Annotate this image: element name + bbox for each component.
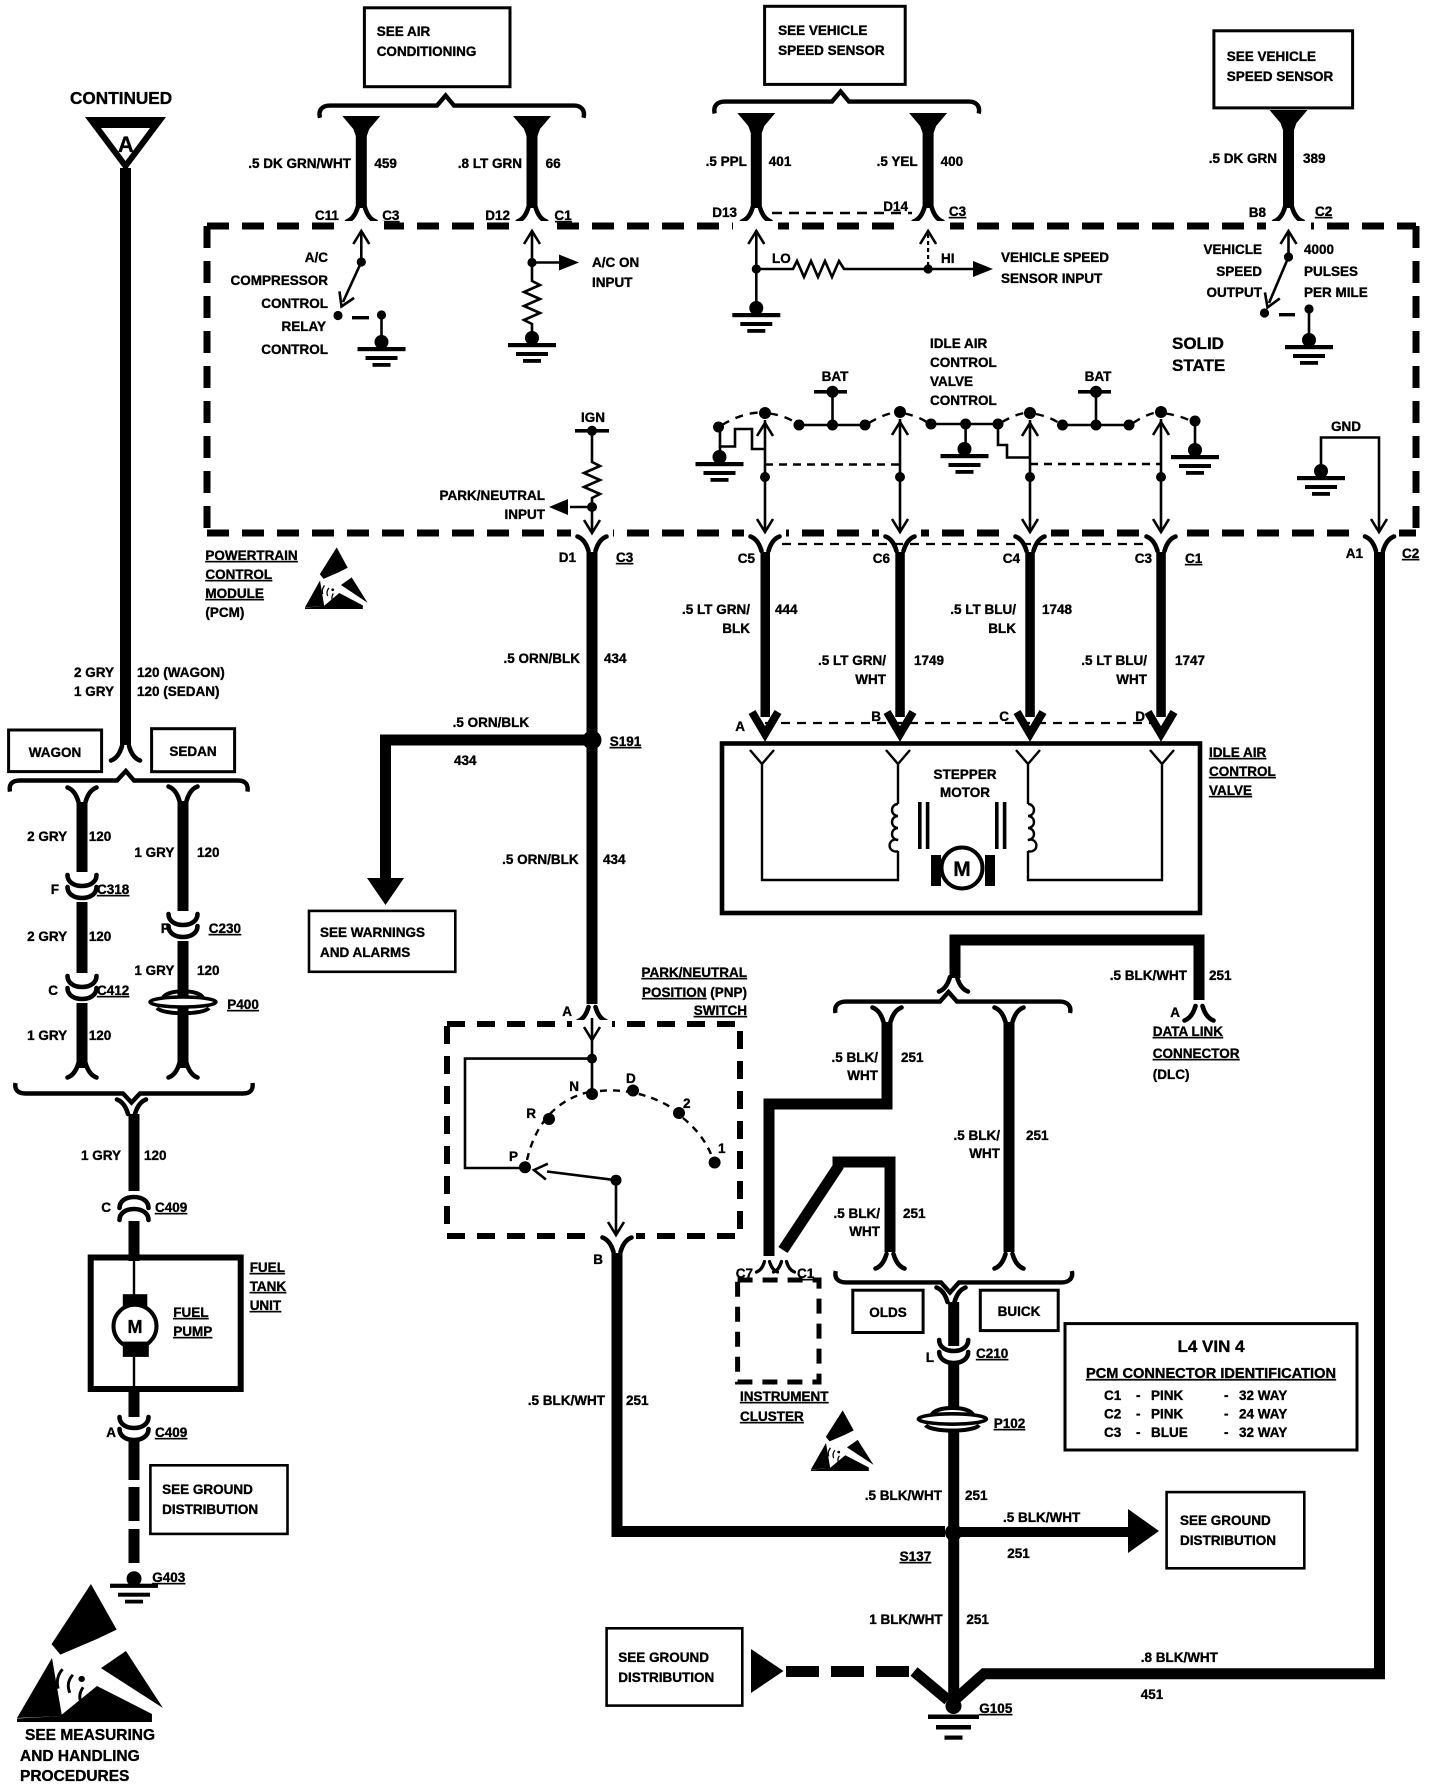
- svg-text:VEHICLE SPEED: VEHICLE SPEED: [1001, 250, 1109, 265]
- left coil: [890, 772, 898, 852]
- svg-text:BLK: BLK: [722, 621, 750, 636]
- driver column C6 vertical with arrows: [892, 419, 908, 532]
- ESD symbol near PCM label: [305, 547, 368, 609]
- label .5 LT GRN/WHT 1749: [818, 653, 944, 687]
- svg-text:444: 444: [775, 602, 798, 617]
- svg-text:IDLE AIR: IDLE AIR: [930, 336, 988, 351]
- label .5 BLK/WHT 251 left branch: [831, 1050, 924, 1083]
- svg-text:IDLE AIR: IDLE AIR: [1209, 745, 1267, 760]
- driver column C3 vertical with arrows: [1153, 419, 1169, 532]
- svg-text:1 GRY: 1 GRY: [74, 684, 114, 699]
- dashed arc right of C3: [1166, 414, 1191, 422]
- svg-text:A: A: [562, 1004, 572, 1019]
- svg-text:.5 DK GRN/WHT: .5 DK GRN/WHT: [248, 156, 352, 171]
- svg-text:WHT: WHT: [1116, 672, 1147, 687]
- svg-text:120: 120: [89, 929, 112, 944]
- svg-text:CONTROL: CONTROL: [261, 296, 328, 311]
- ground stem below left dot: [696, 446, 744, 482]
- svg-text:A: A: [118, 132, 134, 157]
- wire from brace to C210: [948, 1302, 959, 1346]
- dashed arc right of C4: [1036, 414, 1059, 423]
- svg-text:SEDAN: SEDAN: [169, 744, 216, 759]
- BAT tap left: [814, 386, 847, 425]
- drop connector wire 389: [1270, 110, 1308, 208]
- dashed arc right of C5: [770, 414, 796, 424]
- connector at OLDS brace end: [876, 1254, 905, 1269]
- node on relay driver: [357, 257, 366, 266]
- box BUICK: [980, 1290, 1058, 1330]
- svg-text:TANK: TANK: [250, 1279, 287, 1294]
- wire from brace hook up and over to DLC: [955, 940, 1199, 1000]
- svg-text:.5 BLK/: .5 BLK/: [833, 1206, 880, 1221]
- right branch connector under brace: [995, 1008, 1024, 1023]
- svg-text:.8 BLK/WHT: .8 BLK/WHT: [1141, 1650, 1219, 1665]
- svg-text:A/C ON: A/C ON: [592, 255, 639, 270]
- staircase from node to C4 column: [998, 424, 1030, 458]
- svg-text:.5 ORN/BLK: .5 ORN/BLK: [502, 852, 579, 867]
- thick arrow into valve pin A: [752, 712, 778, 734]
- svg-text:S191: S191: [610, 734, 642, 749]
- label VEHICLE SPEED OUTPUT: [1203, 242, 1262, 300]
- gap in dashed border at A entry and B exit: [572, 1020, 636, 1240]
- svg-text:SPEED: SPEED: [1216, 264, 1262, 279]
- inner dashed line segment C4-C3: [1030, 463, 1161, 465]
- dashed valve connector face line: [765, 722, 1161, 724]
- staircase from left dot to C5 column: [720, 427, 765, 449]
- svg-text:A/C: A/C: [305, 250, 329, 265]
- svg-text:MODULE: MODULE: [205, 586, 264, 601]
- line from junction to N contact: [591, 1059, 594, 1094]
- box WAGON: [9, 730, 102, 772]
- vso switch arm: [1269, 257, 1289, 303]
- svg-text:CONNECTOR: CONNECTOR: [1153, 1046, 1240, 1061]
- connector C3 C1 at PCM bottom: [1135, 537, 1203, 567]
- svg-text:C3: C3: [616, 550, 634, 565]
- arrow to SEE GROUND DISTRIBUTION (right): [1128, 1509, 1159, 1553]
- svg-text:VALVE: VALVE: [930, 374, 973, 389]
- motor brushes: [931, 855, 995, 886]
- svg-text:D14: D14: [883, 199, 908, 214]
- label 1 BLK/WHT 251: [869, 1612, 989, 1627]
- svg-text:MOTOR: MOTOR: [940, 785, 990, 800]
- svg-text:120 (SEDAN): 120 (SEDAN): [137, 684, 220, 699]
- svg-text:32 WAY: 32 WAY: [1239, 1388, 1287, 1403]
- connector C4 at PCM bottom: [1003, 537, 1045, 567]
- svg-text:C318: C318: [97, 882, 130, 897]
- wire sedan branch 1 GRY 120: [178, 801, 189, 1068]
- svg-text:32 WAY: 32 WAY: [1239, 1425, 1287, 1440]
- svg-text:UNIT: UNIT: [250, 1298, 282, 1313]
- label .5 BLK/WHT 251 right branch: [953, 1128, 1049, 1161]
- svg-text:B: B: [593, 1252, 603, 1267]
- box SEE GROUND DISTRIBUTION (bottom left): [607, 1628, 743, 1705]
- label FUEL PUMP: [173, 1305, 212, 1339]
- wire S137 down to G105: [948, 1532, 959, 1702]
- svg-text:1 BLK/WHT: 1 BLK/WHT: [869, 1612, 943, 1627]
- svg-text:WHT: WHT: [847, 1068, 878, 1083]
- svg-text:M: M: [128, 1317, 143, 1337]
- dashed arc peak dot C4: [1024, 407, 1036, 419]
- label .5 BLK/WHT 251 (DLC): [1110, 968, 1232, 983]
- svg-text:INSTRUMENT: INSTRUMENT: [740, 1389, 829, 1404]
- connector B8 C2 at PCM: [1249, 204, 1333, 222]
- dashed arc left of C3: [1133, 413, 1156, 424]
- svg-text:251: 251: [901, 1050, 924, 1065]
- svg-text:.5 BLK/WHT: .5 BLK/WHT: [528, 1393, 606, 1408]
- svg-text:GND: GND: [1331, 419, 1361, 434]
- svg-text:.5 BLK/WHT: .5 BLK/WHT: [1110, 968, 1188, 983]
- svg-text:DISTRIBUTION: DISTRIBUTION: [162, 1502, 258, 1517]
- svg-text:-: -: [1136, 1407, 1141, 1422]
- svg-text:-: -: [1224, 1388, 1229, 1403]
- svg-text:OUTPUT: OUTPUT: [1207, 285, 1263, 300]
- wire wagon branch 2 GRY 120: [77, 802, 88, 1068]
- vso: arrow up into B8: [1287, 232, 1290, 257]
- connector C5 at PCM bottom: [738, 537, 780, 567]
- wiper arm with arrow to P: [533, 1162, 616, 1180]
- svg-text:PCM CONNECTOR IDENTIFICATION: PCM CONNECTOR IDENTIFICATION: [1086, 1366, 1336, 1382]
- INSTRUMENT CLUSTER dashed box: [738, 1280, 819, 1382]
- ground G105: [928, 1698, 1013, 1740]
- arrow right to VEHICLE SPEED SENSOR INPUT: [928, 261, 993, 277]
- wire from triangle A down to wagon/sedan brace: [120, 168, 131, 745]
- svg-text:A1: A1: [1346, 546, 1364, 561]
- rectangle loop to P contact: [465, 1059, 592, 1168]
- node dots between C6 and C4 with ground: [926, 419, 1004, 430]
- svg-text:SEE AIR: SEE AIR: [377, 24, 431, 39]
- svg-text:24 WAY: 24 WAY: [1239, 1407, 1287, 1422]
- left branch connector under brace: [873, 1008, 902, 1023]
- svg-text:C: C: [999, 709, 1009, 724]
- relay driver: arrow up into C11: [360, 232, 363, 262]
- svg-text:PULSES: PULSES: [1304, 264, 1358, 279]
- wire C5 to valve pin A: [761, 552, 771, 717]
- splice S137 horizontal wire right to ground distribution arrow: [953, 1527, 1129, 1537]
- svg-text:1 GRY: 1 GRY: [134, 963, 174, 978]
- connector C6 at PCM bottom: [873, 537, 915, 567]
- svg-text:120: 120: [197, 963, 220, 978]
- dashed arc peak dot C5: [759, 407, 771, 419]
- fuel pump motor: [114, 1294, 157, 1389]
- motor M circle: [942, 848, 983, 889]
- svg-text:-: -: [1136, 1425, 1141, 1440]
- svg-text:.5 ORN/BLK: .5 ORN/BLK: [453, 715, 530, 730]
- svg-text:.5 ORN/BLK: .5 ORN/BLK: [503, 651, 580, 666]
- node at D12 input: [527, 258, 536, 267]
- svg-text:POWERTRAIN: POWERTRAIN: [205, 548, 297, 563]
- splice S191 node: [583, 731, 642, 750]
- svg-text:120: 120: [197, 845, 220, 860]
- wire P102 to S137: [948, 1431, 959, 1527]
- ground below LO node: [732, 269, 780, 333]
- svg-text:CONTROL: CONTROL: [205, 567, 272, 582]
- brace joining wagon and sedan branches: [15, 1083, 252, 1103]
- arrow down from gnd bracket into A1: [1371, 519, 1387, 532]
- label INSTRUMENT CLUSTER: [740, 1389, 829, 1424]
- contact dash: [1279, 313, 1295, 316]
- label VEHICLE SPEED SENSOR INPUT: [1001, 250, 1109, 286]
- svg-text:120 (WAGON): 120 (WAGON): [137, 665, 225, 680]
- svg-text:PINK: PINK: [1151, 1407, 1184, 1422]
- arrow from ground distribution box: [751, 1649, 784, 1693]
- svg-text:SENSOR INPUT: SENSOR INPUT: [1001, 271, 1103, 286]
- svg-text:D: D: [626, 1071, 636, 1086]
- hook connector above brace: [939, 977, 968, 992]
- box OLDS: [853, 1290, 923, 1332]
- wire C3 to valve pin D: [1156, 552, 1166, 717]
- relay switch arm: [343, 262, 361, 302]
- svg-text:SEE MEASURING: SEE MEASURING: [25, 1727, 155, 1744]
- A/C on input: arrow up into D12: [531, 232, 534, 263]
- svg-text:PARK/NEUTRAL: PARK/NEUTRAL: [642, 965, 748, 980]
- svg-text:251: 251: [903, 1206, 926, 1221]
- svg-text:AND HANDLING: AND HANDLING: [20, 1748, 140, 1765]
- svg-text:BLK: BLK: [988, 621, 1016, 636]
- svg-text:PER MILE: PER MILE: [1304, 285, 1368, 300]
- svg-text:434: 434: [454, 753, 477, 768]
- wire C409 to fuel tank unit: [129, 1221, 140, 1261]
- svg-text:CONTINUED: CONTINUED: [70, 88, 172, 108]
- svg-text:1 GRY: 1 GRY: [81, 1148, 121, 1163]
- svg-text:PARK/NEUTRAL: PARK/NEUTRAL: [440, 488, 546, 503]
- svg-text:A: A: [735, 719, 745, 734]
- brace under DLC feed: [835, 992, 1070, 1013]
- label SOLID STATE: [1172, 334, 1225, 375]
- vss input: arrow up into D13: [755, 232, 758, 269]
- IDLE AIR CONTROL VALVE box: [722, 744, 1200, 914]
- svg-text:G403: G403: [152, 1570, 186, 1585]
- right coil: [1028, 772, 1036, 851]
- driver node row: step dot far left: [713, 422, 724, 433]
- left core bars: [918, 802, 929, 849]
- connector A above PNP switch: [562, 1004, 606, 1022]
- svg-text:G105: G105: [979, 1701, 1013, 1716]
- grommet P400: [150, 991, 259, 1013]
- wire C6 to valve pin B: [895, 552, 905, 717]
- svg-text:B: B: [871, 709, 881, 724]
- svg-text:SWITCH: SWITCH: [694, 1003, 747, 1018]
- svg-text:CONTROL: CONTROL: [930, 355, 997, 370]
- connector D1 C3 at PCM bottom: [559, 537, 634, 566]
- svg-text:STATE: STATE: [1172, 356, 1225, 375]
- svg-text:AND ALARMS: AND ALARMS: [320, 945, 410, 960]
- drop connector wire 400: [909, 113, 947, 208]
- label STEPPER MOTOR: [933, 767, 996, 800]
- BAT tap right: [1078, 386, 1111, 425]
- svg-text:66: 66: [546, 156, 562, 171]
- svg-text:FUEL: FUEL: [173, 1305, 208, 1320]
- connector at BUICK brace end: [995, 1254, 1024, 1269]
- right arc end dot with ground: [1171, 416, 1219, 475]
- valve pin Y D: [1150, 750, 1174, 772]
- svg-text:SPEED SENSOR: SPEED SENSOR: [1227, 69, 1334, 84]
- svg-text:120: 120: [89, 1028, 112, 1043]
- svg-text:PROCEDURES: PROCEDURES: [20, 1768, 129, 1784]
- svg-text:1: 1: [718, 1141, 726, 1156]
- dashed connector face line between D13 and D14: [772, 212, 912, 214]
- svg-text:INPUT: INPUT: [505, 507, 546, 522]
- label DATA LINK CONNECTOR (DLC): [1153, 1024, 1240, 1082]
- connector C1 at cluster: [774, 1262, 815, 1281]
- svg-text:-: -: [1136, 1388, 1141, 1403]
- dashed arc left of C5: [722, 413, 760, 426]
- svg-text:.5 LT GRN/: .5 LT GRN/: [818, 653, 886, 668]
- svg-text:HI: HI: [941, 251, 955, 266]
- thick arrow into valve pin B: [887, 712, 913, 734]
- svg-text:434: 434: [603, 852, 626, 867]
- svg-text:251: 251: [965, 1488, 988, 1503]
- svg-text:-: -: [1224, 1407, 1229, 1422]
- table L4 VIN 4 PCM CONNECTOR IDENTIFICATION: [1065, 1324, 1357, 1450]
- wagon branch end connector: [68, 1063, 97, 1078]
- label 4000 PULSES PER MILE: [1304, 242, 1368, 300]
- connector below joining brace: [117, 1100, 146, 1115]
- svg-text:1747: 1747: [1175, 653, 1205, 668]
- box SEE VEHICLE SPEED SENSOR (right): [1214, 31, 1353, 108]
- svg-text:C412: C412: [97, 983, 129, 998]
- svg-text:-: -: [1224, 1425, 1229, 1440]
- svg-text:C230: C230: [209, 921, 241, 936]
- svg-text:BAT: BAT: [822, 369, 849, 384]
- svg-text:C6: C6: [873, 551, 891, 566]
- svg-text:BLUE: BLUE: [1151, 1425, 1188, 1440]
- label PARK/NEUTRAL INPUT: [440, 488, 546, 522]
- drop connector wire 401: [737, 113, 775, 208]
- FUEL TANK UNIT box: [91, 1258, 241, 1390]
- svg-text:.5 BLK/WHT: .5 BLK/WHT: [865, 1488, 943, 1503]
- svg-text:C3: C3: [382, 208, 400, 223]
- svg-text:INPUT: INPUT: [592, 275, 633, 290]
- wire then dashed wire to G403: [129, 1441, 140, 1566]
- relay contact node: [333, 311, 342, 320]
- svg-text:WHT: WHT: [969, 1146, 1000, 1161]
- splice S137 node: [900, 1524, 962, 1564]
- svg-text:1748: 1748: [1042, 602, 1073, 617]
- svg-text:P400: P400: [227, 997, 259, 1012]
- svg-text:RELAY: RELAY: [281, 319, 326, 334]
- svg-text:459: 459: [374, 156, 397, 171]
- svg-text:S137: S137: [900, 1549, 932, 1564]
- svg-text:L4 VIN 4: L4 VIN 4: [1177, 1337, 1245, 1356]
- ground at gnd bracket: [1297, 464, 1345, 496]
- svg-text:SOLID: SOLID: [1172, 334, 1224, 353]
- svg-text:C1: C1: [1104, 1388, 1122, 1403]
- junction node inside PNP: [587, 1054, 597, 1064]
- arrow right to A/C ON INPUT: [532, 255, 579, 271]
- label .5 ORN/BLK 434 lower: [502, 852, 626, 867]
- svg-text:CLUSTER: CLUSTER: [740, 1409, 804, 1424]
- right winding loop wiring: [1028, 772, 1162, 880]
- label .8 BLK/WHT 451: [1141, 1650, 1219, 1702]
- resistor below D12 node: [524, 263, 540, 333]
- connector C210 (pin L): [926, 1340, 1009, 1365]
- driver column C5 vertical with arrows: [757, 420, 773, 532]
- brace splitting to wagon and sedan branches: [10, 771, 248, 792]
- svg-text:N: N: [569, 1079, 579, 1094]
- arrow down from A into switch: [584, 1018, 600, 1058]
- svg-text:.5 BLK/: .5 BLK/: [831, 1050, 878, 1065]
- valve pin Y B: [886, 750, 910, 772]
- svg-text:C409: C409: [155, 1200, 187, 1215]
- connector C318: [51, 872, 130, 902]
- svg-text:SEE WARNINGS: SEE WARNINGS: [320, 925, 425, 940]
- wire below fuel tank unit: [129, 1389, 140, 1417]
- sedan branch start connector: [169, 787, 198, 802]
- svg-text:SEE VEHICLE: SEE VEHICLE: [1227, 49, 1316, 64]
- box SEE AIR CONDITIONING: [364, 8, 510, 87]
- svg-text:C4: C4: [1003, 551, 1021, 566]
- svg-text:C1: C1: [1185, 551, 1203, 566]
- connector hook at wagon/sedan brace: [111, 746, 140, 761]
- ESD symbol near instrument cluster: [811, 1410, 874, 1471]
- dashed arc peak dot C6: [894, 406, 906, 418]
- connector A1 C2 at PCM bottom: [1346, 537, 1420, 562]
- svg-text:401: 401: [769, 154, 792, 169]
- wire D1 to PNP switch A: [587, 552, 598, 1004]
- wiper pivot node: [611, 1175, 622, 1186]
- svg-text:C2: C2: [1402, 546, 1419, 561]
- valve pin Y A: [750, 750, 774, 772]
- connector A at DLC: [1170, 1005, 1213, 1021]
- svg-text:F: F: [51, 882, 59, 897]
- svg-text:.5 BLK/: .5 BLK/: [953, 1128, 1000, 1143]
- svg-text:.5 DK GRN: .5 DK GRN: [1209, 151, 1277, 166]
- svg-text:P102: P102: [994, 1416, 1026, 1431]
- svg-text:POSITION (PNP): POSITION (PNP): [642, 985, 747, 1000]
- brace over OLDS and BUICK: [835, 1271, 1072, 1293]
- inner dashed line segment C5-C6: [765, 463, 900, 465]
- svg-text:389: 389: [1303, 151, 1326, 166]
- svg-text:.5 BLK/WHT: .5 BLK/WHT: [1003, 1510, 1081, 1525]
- label SEE MEASURING AND HANDLING PROCEDURES: [20, 1727, 155, 1784]
- gaps in dashed border at connectors: [339, 221, 1399, 538]
- svg-text:SEE GROUND: SEE GROUND: [1180, 1513, 1271, 1528]
- svg-text:.5 LT BLU/: .5 LT BLU/: [1081, 653, 1147, 668]
- PNP dashed box outline: [447, 1024, 740, 1236]
- right branch wire down to BUICK brace: [1004, 1022, 1015, 1252]
- svg-text:BAT: BAT: [1085, 369, 1112, 384]
- resistor below IGN: [584, 431, 600, 507]
- svg-text:COMPRESSOR: COMPRESSOR: [230, 273, 328, 288]
- svg-text:D: D: [1135, 709, 1145, 724]
- svg-text:LO: LO: [772, 251, 791, 266]
- brace under vehicle speed sensor box: [714, 92, 979, 114]
- arrow left to PARK/NEUTRAL INPUT: [549, 499, 592, 515]
- svg-text:DISTRIBUTION: DISTRIBUTION: [618, 1670, 714, 1685]
- valve connector letters A B C D: [735, 709, 1145, 734]
- svg-text:1749: 1749: [914, 653, 944, 668]
- connector under OLDS/BUICK brace: [937, 1288, 966, 1303]
- box SEE GROUND DISTRIBUTION (left): [150, 1465, 287, 1534]
- right core bars: [995, 802, 1006, 849]
- svg-text:SEE VEHICLE: SEE VEHICLE: [778, 23, 867, 38]
- connector C230: [161, 911, 241, 941]
- svg-text:251: 251: [1026, 1128, 1049, 1143]
- box SEE WARNINGS AND ALARMS: [309, 911, 455, 972]
- svg-text:C409: C409: [155, 1425, 187, 1440]
- svg-text:251: 251: [1007, 1546, 1030, 1561]
- label .5 LT BLU/WHT 1747: [1081, 653, 1205, 687]
- gnd bracket wiring: [1321, 438, 1379, 531]
- svg-text:.5 YEL: .5 YEL: [877, 154, 918, 169]
- connector B below PNP switch: [593, 1238, 631, 1268]
- splice S191 branch wire to warnings: [386, 740, 593, 878]
- connector C7: [736, 1262, 778, 1281]
- svg-text:A: A: [1170, 1005, 1180, 1020]
- svg-text:C: C: [101, 1200, 111, 1215]
- svg-text:251: 251: [966, 1612, 989, 1627]
- svg-text:2 GRY: 2 GRY: [74, 665, 114, 680]
